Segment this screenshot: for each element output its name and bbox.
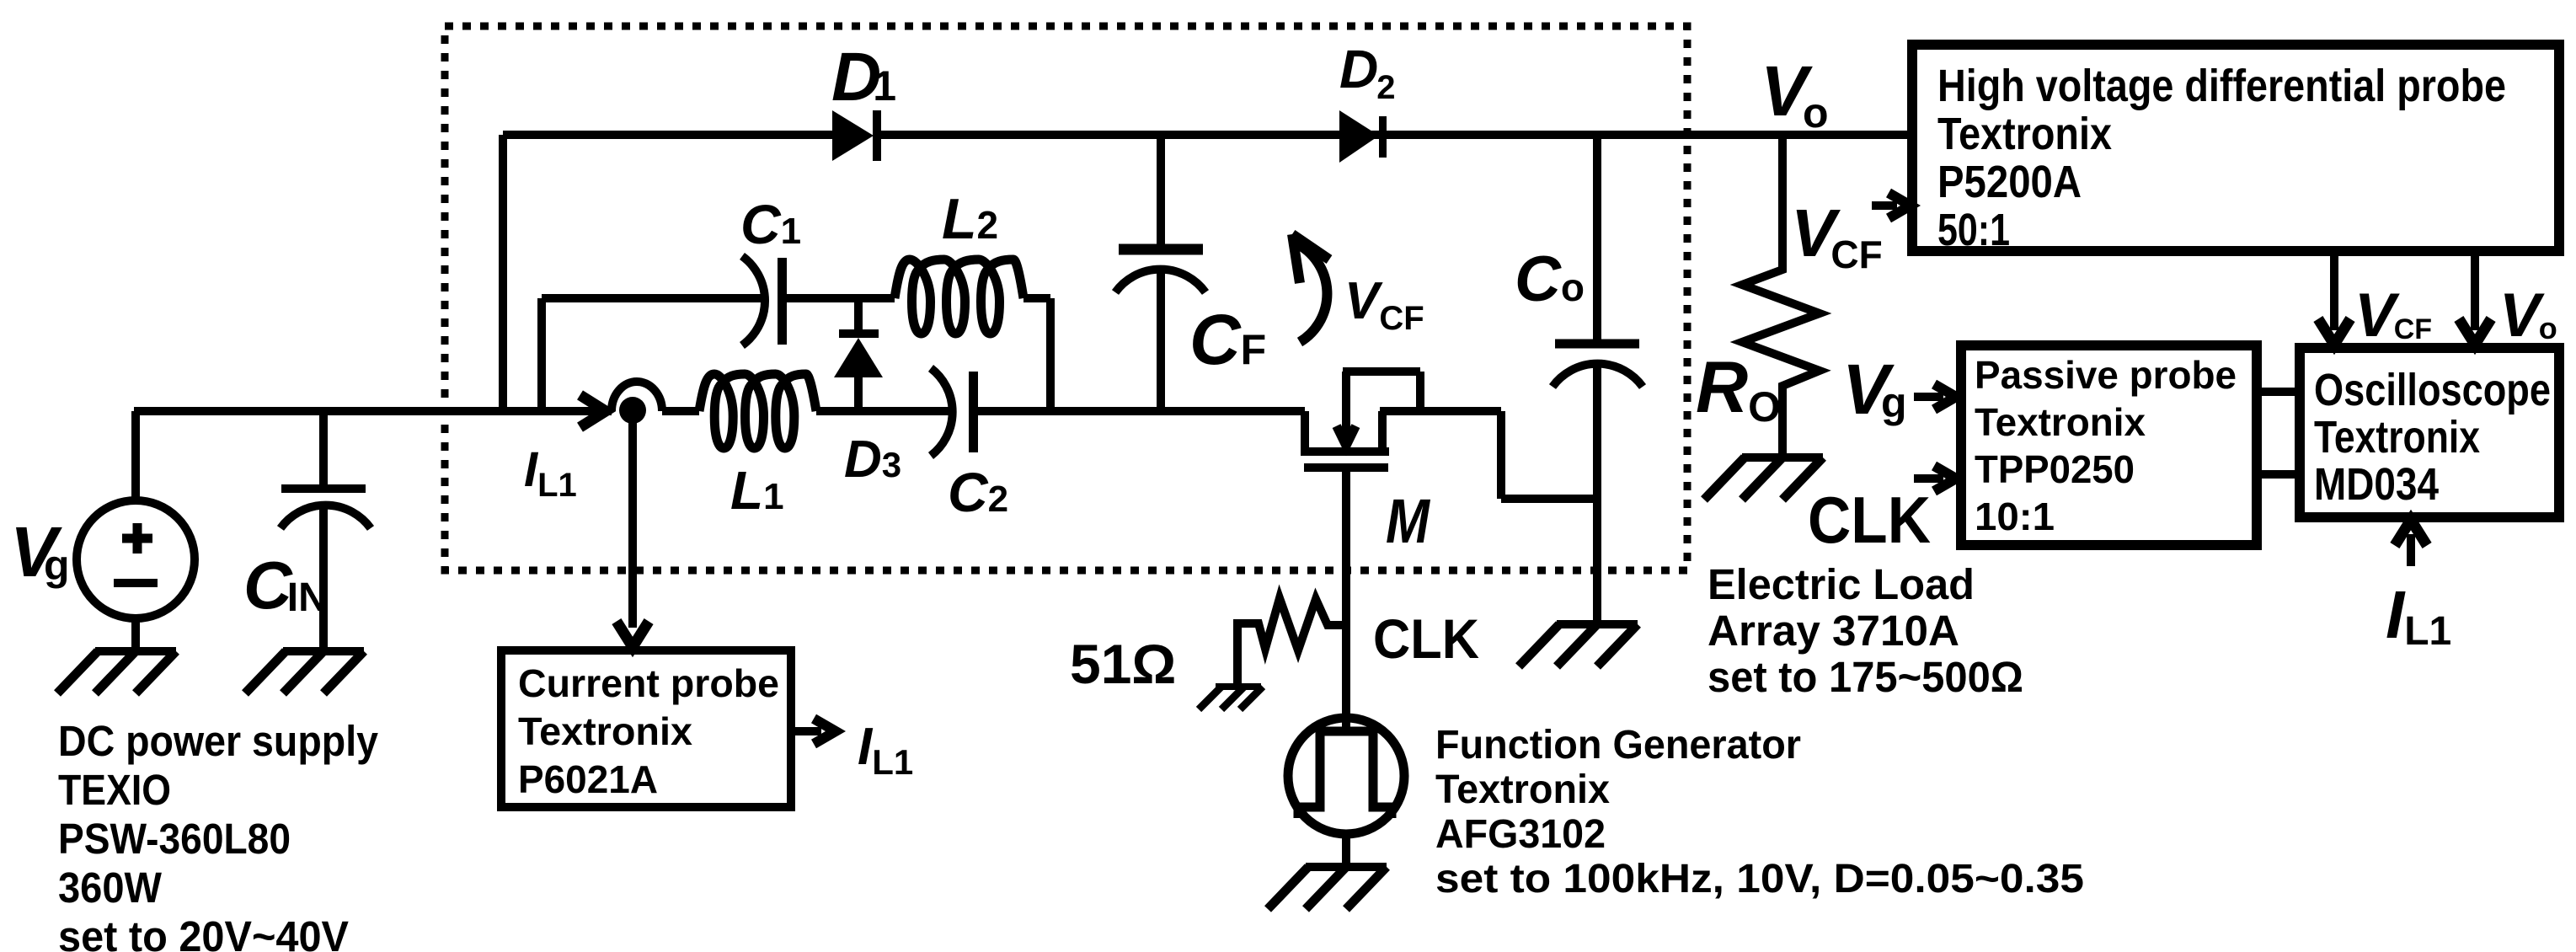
svg-text:IL1: IL1 <box>524 442 577 504</box>
svg-text:50:1: 50:1 <box>1937 205 2010 255</box>
svg-text:set to 175~500Ω: set to 175~500Ω <box>1708 653 2023 701</box>
svg-text:Co: Co <box>1515 243 1585 315</box>
svg-text:High voltage differential prob: High voltage differential probe <box>1937 61 2506 111</box>
svg-text:set to 20V~40V: set to 20V~40V <box>58 912 349 952</box>
svg-text:Vo: Vo <box>1761 51 1829 136</box>
svg-text:Textronix: Textronix <box>1435 767 1610 812</box>
svg-text:Electric Load: Electric Load <box>1708 560 1975 608</box>
svg-text:Vg: Vg <box>10 512 70 591</box>
svg-text:Passive probe: Passive probe <box>1975 353 2237 397</box>
svg-text:L1: L1 <box>730 460 784 521</box>
svg-text:Textronix: Textronix <box>518 709 692 753</box>
svg-text:IL1: IL1 <box>2386 577 2451 654</box>
svg-text:TEXIO: TEXIO <box>58 766 171 814</box>
svg-text:IL1: IL1 <box>858 718 913 782</box>
svg-text:CLK: CLK <box>1373 607 1479 670</box>
svg-text:Current probe: Current probe <box>518 661 779 705</box>
svg-text:Textronix: Textronix <box>1975 400 2146 444</box>
svg-text:D1: D1 <box>831 39 896 115</box>
svg-text:RO: RO <box>1696 347 1781 431</box>
svg-text:Textronix: Textronix <box>2314 412 2480 463</box>
svg-text:M: M <box>1386 486 1430 556</box>
svg-text:360W: 360W <box>58 864 163 912</box>
svg-text:P6021A: P6021A <box>518 757 658 801</box>
svg-text:51Ω: 51Ω <box>1070 633 1176 695</box>
svg-text:L2: L2 <box>942 187 998 251</box>
svg-text:TPP0250: TPP0250 <box>1975 447 2135 491</box>
svg-text:Array 3710A: Array 3710A <box>1708 607 1959 655</box>
svg-text:Vo: Vo <box>2499 281 2557 350</box>
svg-text:CF: CF <box>1189 300 1266 379</box>
svg-text:D2: D2 <box>1339 39 1395 106</box>
svg-text:D3: D3 <box>844 431 901 489</box>
svg-text:PSW-360L80: PSW-360L80 <box>58 815 291 863</box>
svg-text:C2: C2 <box>948 461 1008 523</box>
svg-text:P5200A: P5200A <box>1937 157 2082 207</box>
svg-text:Vg: Vg <box>1842 350 1907 429</box>
svg-text:10:1: 10:1 <box>1975 495 2055 538</box>
svg-text:CLK: CLK <box>1808 483 1931 557</box>
svg-text:VCF: VCF <box>1344 272 1424 337</box>
svg-text:C1: C1 <box>740 193 801 255</box>
svg-text:CIN: CIN <box>243 548 328 623</box>
svg-text:VCF: VCF <box>2354 281 2432 350</box>
svg-text:set to 100kHz, 10V, D=0.05~0.3: set to 100kHz, 10V, D=0.05~0.35 <box>1435 857 2084 901</box>
svg-text:Textronix: Textronix <box>1937 109 2112 159</box>
svg-text:AFG3102: AFG3102 <box>1435 812 1606 857</box>
svg-text:Function Generator: Function Generator <box>1435 723 1801 767</box>
svg-text:DC power supply: DC power supply <box>58 717 379 765</box>
svg-text:VCF: VCF <box>1791 195 1883 276</box>
svg-text:MD034: MD034 <box>2314 459 2439 510</box>
svg-text:Oscilloscope: Oscilloscope <box>2314 365 2551 415</box>
